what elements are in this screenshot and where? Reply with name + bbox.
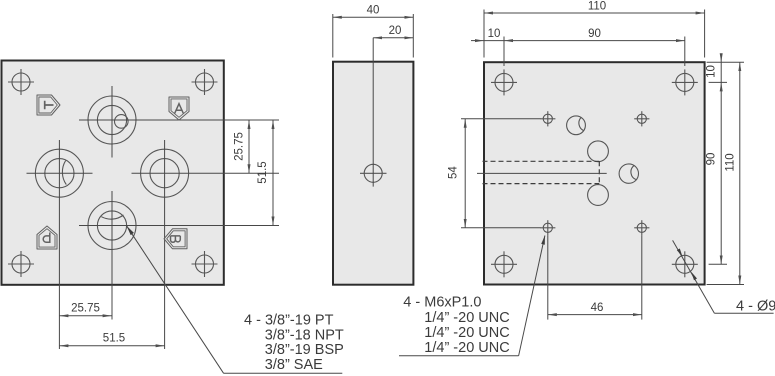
plate body back xyxy=(484,62,705,284)
M6 hole bottom-left xyxy=(540,220,555,235)
svg-text:51.5: 51.5 xyxy=(103,332,125,344)
port right (B) xyxy=(141,149,189,197)
corner bolt hole top-right xyxy=(192,69,218,95)
dimension 110 (far right) xyxy=(739,62,741,284)
dimension 10 / 90 (top) xyxy=(471,37,685,67)
right side extension lines xyxy=(707,62,744,284)
corner hole bottom-right xyxy=(672,251,698,277)
hidden channel dashed lines xyxy=(483,161,600,183)
port badge B (bottom-right, pointing left) xyxy=(164,229,187,249)
svg-text:1/4” -20 UNC: 1/4” -20 UNC xyxy=(424,325,509,341)
back port hole upper-center xyxy=(588,141,609,162)
leader to corner hole (4 - D9) xyxy=(673,240,715,313)
corner bolt hole bottom-right xyxy=(192,251,218,277)
dimension 54 (left of back view) xyxy=(461,119,541,228)
corner bolt hole top-left xyxy=(8,69,34,95)
dimension 25.75 (right side, left view, vertical) xyxy=(248,120,250,173)
plate body side xyxy=(333,62,413,285)
back port hole upper-left xyxy=(567,116,586,135)
back port hole right xyxy=(619,164,638,183)
channel centerline xyxy=(477,172,607,174)
svg-text:4 - 3/8”-19 PT: 4 - 3/8”-19 PT xyxy=(244,313,334,329)
leader to M6 note xyxy=(519,236,545,356)
dimension 25.75 (bottom, left view) xyxy=(59,315,111,317)
corner bolt hole bottom-left xyxy=(8,251,34,277)
svg-text:90: 90 xyxy=(588,28,601,40)
dimension 51.5 (right side, left view, vertical) xyxy=(272,120,274,226)
dimension 40 xyxy=(333,14,414,58)
svg-text:3/8”-19 BSP: 3/8”-19 BSP xyxy=(265,342,344,358)
svg-text:10: 10 xyxy=(488,28,501,40)
centerlines / extension lines, left view xyxy=(27,86,280,349)
corner hole top-left xyxy=(491,69,517,95)
dimension 110 (top) xyxy=(484,10,705,58)
svg-text:4 - Ø9: 4 - Ø9 xyxy=(736,299,775,315)
dimension 46 (bottom of back view) xyxy=(548,235,642,319)
dimension 10 / 90 (right side) xyxy=(720,55,722,265)
dimension 20 xyxy=(373,37,413,39)
svg-text:10: 10 xyxy=(705,65,717,78)
svg-text:1/4” -20 UNC: 1/4” -20 UNC xyxy=(424,340,509,356)
corner hole top-right xyxy=(672,69,698,95)
svg-text:51.5: 51.5 xyxy=(257,161,269,183)
svg-text:4 - M6xP1.0: 4 - M6xP1.0 xyxy=(403,295,481,311)
svg-text:1/4” -20 UNC: 1/4” -20 UNC xyxy=(424,310,509,326)
port left (P) xyxy=(35,149,83,197)
port bottom (T) xyxy=(88,202,136,250)
svg-text:46: 46 xyxy=(591,302,604,314)
svg-text:20: 20 xyxy=(389,25,402,37)
svg-text:40: 40 xyxy=(367,5,380,17)
svg-text:90: 90 xyxy=(705,153,717,166)
M6 hole top-right xyxy=(634,111,649,126)
corner hole bottom-left xyxy=(491,251,517,277)
dimension 51.5 (bottom, left view) xyxy=(59,345,164,347)
port badge A (top-right, pointing down) xyxy=(169,97,189,120)
back port hole lower-center xyxy=(588,185,609,206)
plate body xyxy=(2,61,224,285)
leader to port note xyxy=(127,226,224,373)
svg-text:110: 110 xyxy=(588,1,606,13)
port top (A) xyxy=(88,96,136,144)
vertical centerline xyxy=(372,38,374,187)
M6 hole top-left xyxy=(540,111,555,126)
port badge P (bottom-left, pointing up) xyxy=(37,226,57,249)
M6 hole bottom-right xyxy=(634,220,649,235)
svg-text:25.75: 25.75 xyxy=(71,303,100,315)
port badge T (top-left, pointing right) xyxy=(37,95,60,115)
svg-text:3/8” SAE: 3/8” SAE xyxy=(265,357,323,373)
svg-text:25.75: 25.75 xyxy=(234,132,246,161)
svg-text:110: 110 xyxy=(724,153,736,171)
gauge hole xyxy=(360,164,387,182)
svg-text:54: 54 xyxy=(448,166,460,179)
